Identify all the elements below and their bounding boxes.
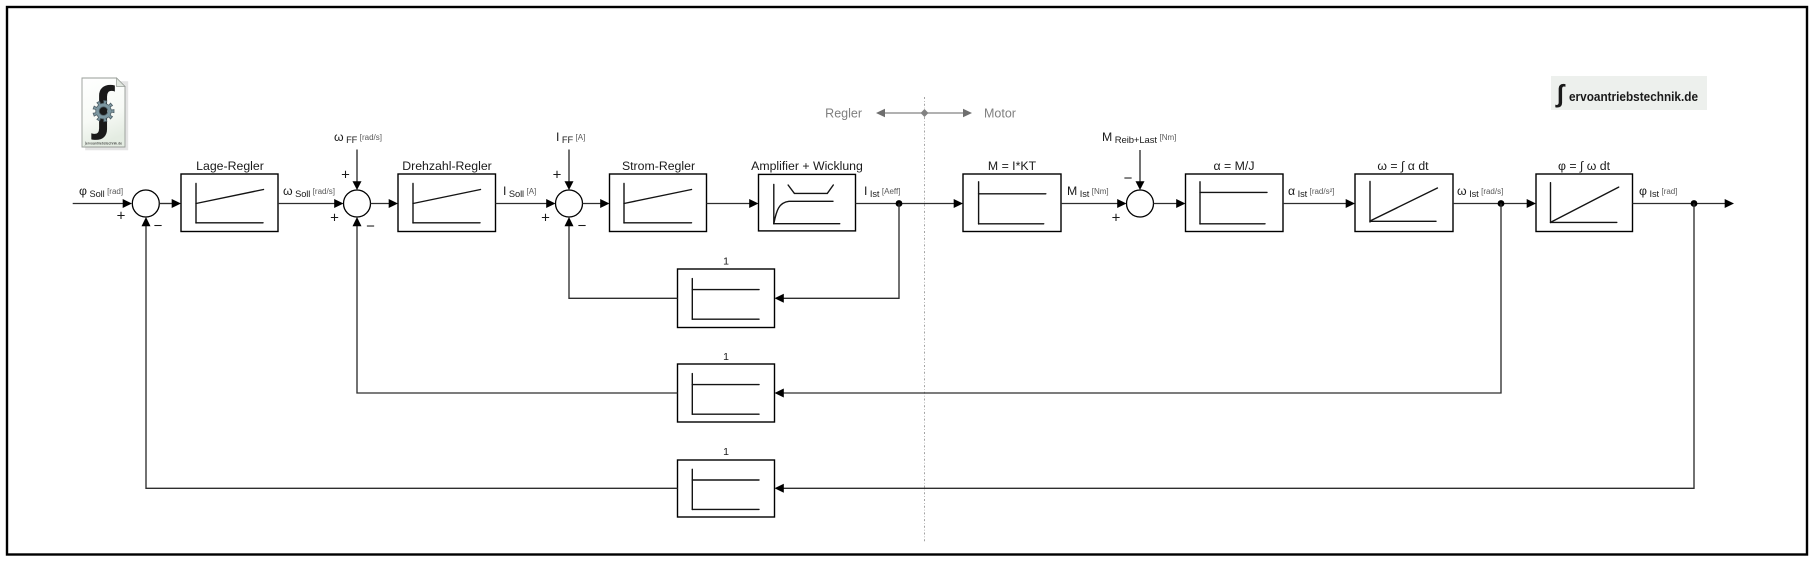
summing junction S3 bbox=[556, 190, 583, 217]
graph in alpha=M/J bbox=[1199, 182, 1201, 224]
wire: phi integrator to output with node bbox=[1633, 203, 1726, 205]
svg-text:−: − bbox=[1124, 170, 1133, 187]
block phi = integral omega dt bbox=[1536, 174, 1633, 232]
summing junction S1 bbox=[132, 190, 159, 217]
svg-text:+: + bbox=[341, 167, 350, 184]
svg-text:Drehzahl-Regler: Drehzahl-Regler bbox=[402, 159, 492, 173]
wire: phi_Soll input bbox=[73, 203, 124, 205]
wire: omega_FF feed-forward into S2 bbox=[356, 150, 358, 183]
summing junction S4 bbox=[1127, 190, 1154, 217]
svg-text:+: + bbox=[541, 210, 550, 227]
graph in phi integrator bbox=[1550, 183, 1552, 223]
svg-text:I FF [A]: I FF [A] bbox=[556, 130, 585, 145]
svg-text:Regler: Regler bbox=[825, 107, 862, 121]
svg-text:M Ist [Nm]: M Ist [Nm] bbox=[1067, 184, 1109, 199]
wire: S3 to Strom-Regler bbox=[583, 203, 602, 205]
graph in Strom-Regler bbox=[623, 184, 625, 224]
node phi_Ist junction bbox=[1691, 200, 1698, 207]
graph in omega integrator bbox=[1369, 182, 1371, 223]
graph in Lage-Regler bbox=[195, 184, 197, 224]
svg-text:ω Soll [rad/s]: ω Soll [rad/s] bbox=[283, 184, 335, 199]
svg-text:Motor: Motor bbox=[984, 107, 1016, 121]
wire: Lage-Regler to S2 bbox=[278, 203, 335, 205]
logo top-right: servoantriebstechnik.de banner bbox=[1551, 76, 1707, 110]
svg-text:+: + bbox=[1112, 210, 1121, 227]
block Drehzahl-Regler bbox=[398, 174, 496, 232]
block M = I*KT bbox=[963, 174, 1061, 232]
svg-text:+: + bbox=[330, 210, 339, 227]
svg-text:ω = ∫ α dt: ω = ∫ α dt bbox=[1377, 159, 1429, 173]
svg-text:−: − bbox=[154, 218, 163, 235]
svg-text:ervoantriebstechnik.de: ervoantriebstechnik.de bbox=[1569, 89, 1698, 104]
svg-text:1: 1 bbox=[723, 351, 729, 363]
wire: F3 out to S1 feedback (up) bbox=[146, 226, 678, 489]
logo top-left: page with integral and gear bbox=[82, 75, 128, 150]
wire: S4 to alpha block bbox=[1154, 203, 1178, 205]
svg-text:+: + bbox=[553, 167, 562, 184]
wire: omega integrator to phi integrator with node bbox=[1453, 203, 1528, 205]
wire: I_Ist node down and left into F1 bbox=[783, 204, 899, 299]
double arrow between Regler and Motor bbox=[883, 112, 966, 114]
node omega_Ist junction bbox=[1498, 200, 1505, 207]
svg-text:φ Ist [rad]: φ Ist [rad] bbox=[1639, 184, 1677, 199]
svg-text:Lage-Regler: Lage-Regler bbox=[196, 159, 264, 173]
svg-text:α Ist [rad/s²]: α Ist [rad/s²] bbox=[1288, 184, 1335, 199]
svg-text:φ Soll [rad]: φ Soll [rad] bbox=[79, 184, 123, 199]
wire: I_FF feed-forward into S3 bbox=[568, 150, 570, 183]
graph in Drehzahl-Regler bbox=[412, 184, 414, 224]
wire: Drehzahl-Regler to S3 bbox=[496, 203, 548, 205]
block Amplifier + Wicklung bbox=[759, 174, 856, 231]
graph in F2 bbox=[691, 374, 693, 415]
wire: alpha block to omega integrator bbox=[1283, 203, 1347, 205]
graph in M=I*KT bbox=[978, 182, 980, 224]
wire: F2 out to S2 feedback (up) bbox=[357, 226, 678, 394]
graph in Amplifier: axes, saturation curve, bathtub curve bbox=[773, 184, 775, 223]
Regler / Motor divider (dash-dot) bbox=[924, 97, 926, 542]
svg-text:M = I*KT: M = I*KT bbox=[988, 159, 1037, 173]
wire: omega_Ist node down and left into F2 bbox=[783, 204, 1501, 394]
wire: Strom-Regler to Amplifier bbox=[707, 203, 751, 205]
svg-text:ω FF [rad/s]: ω FF [rad/s] bbox=[334, 130, 382, 145]
svg-text:Amplifier + Wicklung: Amplifier + Wicklung bbox=[751, 159, 863, 173]
svg-text:α = M/J: α = M/J bbox=[1214, 159, 1255, 173]
svg-text:M Reib+Last [Nm]: M Reib+Last [Nm] bbox=[1102, 130, 1176, 146]
graph in F1 bbox=[691, 279, 693, 320]
feedback block F2 (speed, gain 1) bbox=[678, 364, 775, 422]
block Lage-Regler bbox=[181, 174, 278, 232]
wire: phi_Ist node down and left into F3 bbox=[783, 204, 1694, 489]
feedback block F3 (position, gain 1) bbox=[678, 460, 775, 517]
summing junction S2 bbox=[344, 190, 371, 217]
svg-text:1: 1 bbox=[723, 446, 729, 458]
svg-text:Strom-Regler: Strom-Regler bbox=[622, 159, 695, 173]
wire: S1 to Lage-Regler bbox=[159, 203, 172, 205]
block Strom-Regler bbox=[610, 174, 707, 232]
block alpha = M/J bbox=[1186, 174, 1284, 232]
svg-text:φ = ∫ ω dt: φ = ∫ ω dt bbox=[1558, 159, 1611, 173]
svg-text:1: 1 bbox=[723, 256, 729, 268]
svg-text:ω Ist [rad/s]: ω Ist [rad/s] bbox=[1457, 184, 1503, 199]
feedback block F1 (current, gain 1) bbox=[678, 269, 775, 328]
graph in F3 bbox=[691, 469, 693, 509]
svg-text:I Soll [A]: I Soll [A] bbox=[503, 184, 536, 199]
svg-text:−: − bbox=[578, 218, 587, 235]
svg-text:+: + bbox=[117, 208, 126, 225]
wire: S2 to Drehzahl-Regler bbox=[371, 203, 391, 205]
block omega = integral alpha dt bbox=[1355, 174, 1453, 232]
svg-text:∫ervoantriebstechnik.de: ∫ervoantriebstechnik.de bbox=[84, 142, 122, 146]
svg-text:I Ist [Aeff]: I Ist [Aeff] bbox=[864, 184, 900, 199]
svg-text:−: − bbox=[366, 218, 375, 235]
wire: Amplifier to M=I*KT with node bbox=[856, 203, 955, 205]
wire: F1 out to S3 feedback (up) bbox=[569, 226, 678, 299]
wire: M=I*KT to S4 bbox=[1061, 203, 1118, 205]
node I_Ist junction bbox=[896, 200, 903, 207]
wire: M_Reib+Last disturbance into S4 bbox=[1139, 150, 1141, 183]
